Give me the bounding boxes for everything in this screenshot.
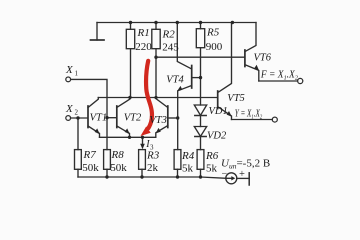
- node bottom rail R4: [176, 175, 179, 178]
- svg-text:R2: R2: [162, 28, 176, 40]
- svg-text:50k: 50k: [110, 162, 127, 174]
- wire output F: [259, 80, 298, 82]
- svg-text:VT2: VT2: [124, 112, 142, 123]
- svg-text:VD1: VD1: [209, 106, 228, 117]
- resistor R6: [197, 150, 204, 170]
- transistor VT2: [116, 106, 118, 128]
- wire input X1: [71, 79, 107, 149]
- transistor VT6: [244, 50, 246, 67]
- node VT4 base: [199, 76, 202, 79]
- svg-text:VT1: VT1: [90, 112, 108, 123]
- transistor VT5: [217, 91, 219, 109]
- svg-text:R8: R8: [111, 149, 125, 161]
- svg-text:900: 900: [206, 41, 223, 53]
- terminal Y: [272, 117, 277, 122]
- diode VD1: [200, 78, 202, 105]
- resistor R8: [104, 150, 111, 170]
- resistor R5: [200, 23, 202, 78]
- node VT2 base: [105, 116, 108, 119]
- svg-text:3: 3: [150, 144, 154, 152]
- emitter arrow VT4: [177, 86, 182, 91]
- emitter arrow VT3: [156, 128, 161, 134]
- svg-text:X: X: [65, 64, 74, 76]
- svg-text:220: 220: [135, 41, 152, 53]
- svg-text:F = X1.X2: F = X1.X2: [260, 70, 299, 82]
- terminal F: [298, 78, 303, 83]
- svg-text:+: +: [239, 169, 245, 180]
- ground: [96, 23, 98, 41]
- resistor R2: [155, 23, 157, 58]
- wire R2 drop to collector bus: [155, 57, 157, 97]
- svg-text:R4: R4: [181, 150, 195, 162]
- emitter arrow VT6: [254, 65, 259, 71]
- svg-text:50k: 50k: [82, 162, 99, 174]
- resistor R1: [130, 23, 132, 98]
- svg-text:2: 2: [75, 108, 79, 116]
- wire emitter bus: [100, 136, 156, 138]
- wire VT6 base from R2: [156, 56, 244, 58]
- svg-text:R6: R6: [205, 150, 219, 162]
- svg-text:VD2: VD2: [207, 131, 227, 142]
- svg-text:1: 1: [75, 70, 79, 78]
- svg-text:2k: 2k: [147, 162, 159, 174]
- svg-text:VT5: VT5: [227, 93, 245, 104]
- current arrow I3: [140, 144, 145, 149]
- svg-text:R5: R5: [206, 26, 220, 38]
- node VT3 collector/bus: [154, 96, 157, 99]
- node bottom rail R3: [140, 175, 143, 178]
- svg-text:VT6: VT6: [254, 53, 272, 64]
- svg-text:VT4: VT4: [166, 75, 184, 86]
- transistor VT4: [191, 66, 193, 89]
- svg-text:Uип=-5,2 В: Uип=-5,2 В: [221, 157, 270, 170]
- wire R7 drop: [77, 118, 79, 150]
- wire bottom rail: [78, 177, 226, 178]
- svg-text:Y = X1.X2: Y = X1.X2: [235, 109, 263, 121]
- node R3 tap: [141, 136, 144, 139]
- node VT3 base/R4: [176, 116, 179, 119]
- node R2/VT6 base: [154, 56, 157, 59]
- resistor R7: [75, 150, 82, 170]
- svg-text:VT3: VT3: [149, 115, 167, 126]
- svg-text:5k: 5k: [182, 163, 194, 175]
- node bottom rail R6: [199, 175, 202, 178]
- svg-text:R1: R1: [137, 27, 150, 39]
- wire top rail: [97, 22, 256, 24]
- wire collector bus: [98, 97, 217, 99]
- node X2/R7: [76, 116, 79, 119]
- svg-text:245: 245: [162, 41, 179, 53]
- svg-text:R7: R7: [83, 149, 97, 161]
- red annotation arrow: [141, 61, 152, 136]
- svg-text:5k: 5k: [206, 163, 218, 175]
- emitter arrow VT5: [227, 111, 232, 117]
- node VT2 emitter: [128, 136, 131, 139]
- svg-text:−: −: [222, 169, 228, 180]
- node R1/bus: [128, 96, 131, 99]
- emitter arrow VT2: [125, 128, 130, 134]
- svg-text:X: X: [65, 103, 74, 115]
- terminal X1: [66, 77, 71, 82]
- terminal X2: [66, 116, 71, 121]
- current source U: [226, 173, 237, 184]
- labels: [82, 26, 223, 174]
- arrow in source circle: [231, 176, 235, 180]
- transistor VT1: [87, 106, 89, 128]
- resistor R3: [139, 150, 146, 170]
- resistor R4: [174, 150, 181, 170]
- node bottom rail R8: [105, 175, 108, 178]
- wire output Y: [232, 119, 273, 121]
- diode VD2: [200, 116, 202, 127]
- node dots top rail: [129, 21, 132, 24]
- emitter arrow VT1: [95, 128, 100, 134]
- wire input X2: [71, 117, 88, 119]
- transistor VT3: [167, 106, 169, 128]
